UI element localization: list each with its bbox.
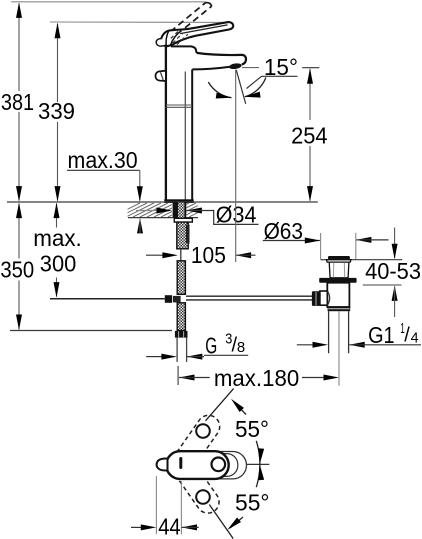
dimension 350 <box>18 204 20 330</box>
front nub <box>157 459 168 471</box>
lever front curl <box>156 39 166 47</box>
extension line lever top level (339) <box>50 21 229 23</box>
deck (counter) top line <box>7 201 318 203</box>
svg-text:350: 350 <box>0 257 34 283</box>
lever top inner edge <box>180 25 228 34</box>
dimension 105 <box>146 254 163 256</box>
upper 55 line <box>206 389 234 421</box>
svg-text:55°: 55° <box>235 416 269 442</box>
upper 55 leader arrow <box>234 401 247 414</box>
pop-up waste cap <box>328 256 350 260</box>
spout top edge <box>197 53 246 65</box>
deck cross-section hatching <box>112 203 217 217</box>
supply pipe centerline <box>177 366 179 385</box>
svg-text:55°: 55° <box>235 490 270 516</box>
svg-text:max.180: max.180 <box>214 365 299 391</box>
waste tailpipe <box>328 311 330 353</box>
pop-up rod tube right segment <box>186 295 312 297</box>
threaded shank below nut <box>177 222 188 249</box>
15 degree arc left <box>208 82 231 98</box>
extension line top (lever raised tip level) <box>11 1 206 3</box>
svg-text:G: G <box>205 332 217 358</box>
waste locknut <box>328 306 351 311</box>
braided hose upper <box>177 261 185 295</box>
svg-text:/: / <box>404 325 410 347</box>
top view: body inner rim <box>175 454 238 477</box>
svg-text:40-53: 40-53 <box>365 258 421 284</box>
dimension 339 <box>57 24 59 201</box>
svg-text:300: 300 <box>40 250 77 276</box>
waste lip <box>326 260 351 262</box>
svg-text:4: 4 <box>411 330 419 346</box>
15 degree level tick <box>242 67 259 69</box>
pop-up rod connector <box>165 295 172 303</box>
aerator <box>229 63 242 70</box>
waste body <box>327 283 349 307</box>
hose link line <box>180 249 182 261</box>
dimension G1 1/4 <box>297 344 313 346</box>
centerline right of lever <box>247 463 270 465</box>
waste side port <box>320 291 327 305</box>
deck bottom line <box>128 217 198 219</box>
spout bottom edge <box>192 67 229 70</box>
rod knob <box>312 291 320 306</box>
side rod guide piece <box>186 225 190 244</box>
waste flange <box>319 278 356 283</box>
faucet base band on deck <box>164 199 193 203</box>
upper lobe hole circle <box>196 424 210 438</box>
column joint lines <box>166 104 192 106</box>
lower 55 leader arrow <box>230 517 243 528</box>
lever raised (dashed) <box>170 3 211 35</box>
svg-text:G1: G1 <box>368 322 395 348</box>
svg-text:339: 339 <box>38 98 75 124</box>
top view: body outline (thin, spout reach) <box>172 452 247 479</box>
pivot tick <box>179 459 182 468</box>
basin floor line <box>321 259 327 261</box>
drain centerline <box>338 311 340 386</box>
lever pivot boss <box>166 31 181 47</box>
dimension 254 <box>302 67 319 69</box>
waste plug body <box>329 262 349 278</box>
lever handle (horizontal, solid) <box>161 22 233 46</box>
extension line 350 bottom <box>10 330 172 332</box>
15 degree arc right <box>245 78 266 97</box>
dimension 40-53 <box>394 228 396 259</box>
svg-text:8: 8 <box>237 340 245 356</box>
15 degree tilted stream line <box>236 70 245 104</box>
swing arc <box>256 441 260 487</box>
braided hose lower <box>177 303 185 331</box>
top view: dashed swing lobe upper <box>166 411 224 480</box>
svg-text:105: 105 <box>191 242 226 268</box>
supply hex nut <box>175 331 188 338</box>
mounting nut under deck <box>174 218 192 222</box>
column left edge <box>165 45 167 200</box>
svg-text:254: 254 <box>291 122 328 148</box>
column inner line <box>184 72 186 200</box>
dimension 44 <box>155 476 157 534</box>
svg-text:44: 44 <box>158 513 181 539</box>
pop-up rod left segment <box>50 298 165 300</box>
15 degree annotation <box>235 70 237 263</box>
lever hole circle <box>212 458 226 472</box>
pop-up actuator knob (left of column) <box>155 71 165 81</box>
dimension max.180 <box>177 366 179 385</box>
drain extension line right <box>355 233 357 260</box>
dimension max.300 <box>56 204 58 297</box>
lower lobe hole circle <box>196 490 210 504</box>
threaded shank through deck <box>173 202 179 218</box>
dimension Ø34 <box>136 210 158 212</box>
dimension 381 <box>18 4 20 201</box>
top view: dashed swing lobe lower <box>166 448 224 517</box>
svg-text:381: 381 <box>1 89 34 115</box>
top view: lever (thick pill) <box>166 451 229 479</box>
column right edge <box>191 69 193 199</box>
dimension G 3/8 <box>146 356 162 358</box>
lower 55 line <box>209 505 233 539</box>
svg-text:max.30: max.30 <box>68 147 138 173</box>
supply pipe <box>176 338 178 362</box>
drain extension line left <box>320 233 322 260</box>
svg-text:max.: max. <box>33 225 82 251</box>
faucet body bench <box>171 46 197 53</box>
